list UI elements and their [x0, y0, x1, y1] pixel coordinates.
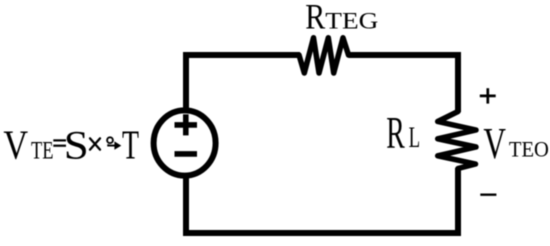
- svg-text:R: R: [386, 108, 405, 158]
- svg-text:T: T: [122, 122, 139, 168]
- svg-text:TE: TE: [31, 137, 54, 165]
- svg-text:TEG: TEG: [325, 9, 378, 35]
- svg-text:L: L: [409, 121, 421, 154]
- svg-text:R: R: [305, 0, 326, 37]
- svg-text:S: S: [64, 123, 89, 168]
- svg-text:V: V: [3, 122, 28, 168]
- svg-text:TEO: TEO: [509, 137, 549, 162]
- svg-text:V: V: [483, 119, 506, 168]
